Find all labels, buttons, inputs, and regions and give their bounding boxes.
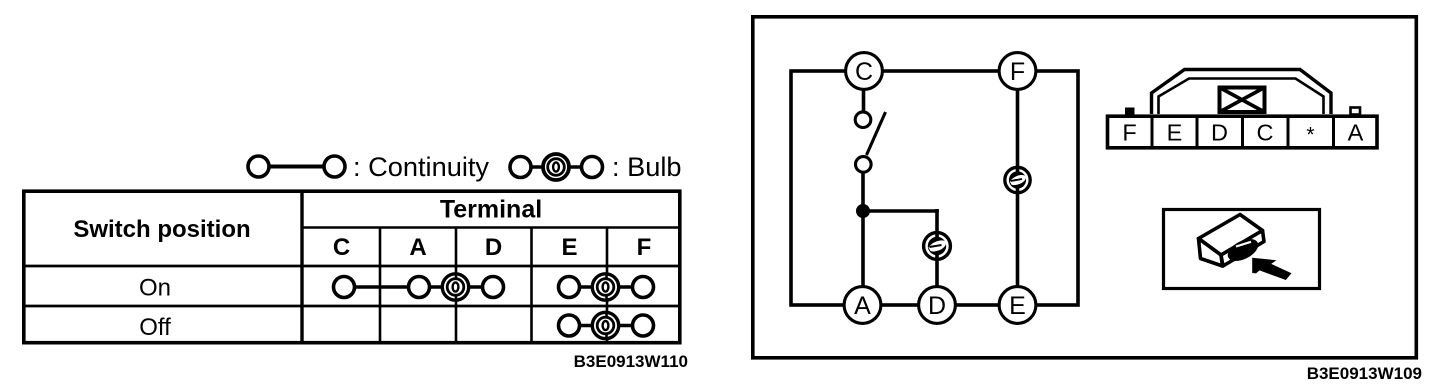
connector lock box with X bbox=[1220, 88, 1265, 113]
legend bulb symbol bbox=[510, 154, 603, 180]
inset arrow bbox=[1252, 258, 1291, 280]
On row continuity C-A with bulb to D bbox=[334, 274, 504, 300]
terminal D bbox=[919, 287, 956, 324]
connector left tab bbox=[1125, 108, 1135, 115]
wire C to switch bbox=[862, 71, 866, 113]
svg-text:: Continuity: : Continuity bbox=[353, 151, 489, 182]
svg-text:C: C bbox=[333, 234, 350, 261]
svg-text:F: F bbox=[1010, 58, 1025, 86]
terminal C bbox=[846, 53, 883, 90]
connector hood outer outline bbox=[1152, 70, 1332, 115]
connector socket dark face bbox=[1224, 234, 1262, 265]
inset box bbox=[1164, 210, 1320, 289]
svg-text:Off: Off bbox=[139, 314, 171, 341]
connector hood inner outline bbox=[1159, 79, 1324, 115]
svg-text:B3E0913W110: B3E0913W110 bbox=[574, 352, 688, 371]
wire junction to bulb branch bbox=[863, 209, 939, 305]
wire F to E through bulb bbox=[1016, 71, 1020, 305]
svg-text:On: On bbox=[139, 275, 171, 302]
svg-text:A: A bbox=[409, 234, 426, 261]
connector 3d body bbox=[1199, 215, 1265, 267]
wire switch to junction to A bbox=[861, 172, 865, 305]
terminal F bbox=[999, 53, 1036, 90]
terminal A bbox=[844, 287, 881, 324]
Off row bulb E-F bbox=[559, 312, 654, 338]
terminal E bbox=[999, 287, 1036, 324]
table grid bbox=[23, 191, 680, 343]
svg-text:D: D bbox=[1211, 120, 1228, 146]
outer frame of right figure bbox=[753, 17, 1417, 358]
svg-text:F: F bbox=[1122, 120, 1136, 146]
junction node bbox=[856, 204, 870, 218]
svg-text:D: D bbox=[485, 234, 502, 261]
svg-text:: Bulb: : Bulb bbox=[612, 151, 682, 182]
svg-text:Terminal: Terminal bbox=[440, 196, 542, 224]
svg-text:A: A bbox=[854, 292, 871, 320]
svg-text:*: * bbox=[1306, 124, 1314, 147]
svg-text:D: D bbox=[928, 292, 946, 320]
connector right tab bbox=[1351, 108, 1361, 115]
svg-text:E: E bbox=[1167, 120, 1183, 146]
bulb between junction and D bbox=[924, 233, 951, 260]
bulb between F and E bbox=[1005, 167, 1030, 192]
svg-text:C: C bbox=[1257, 120, 1274, 146]
svg-text:C: C bbox=[855, 58, 873, 86]
connector pin row bbox=[1108, 115, 1378, 149]
svg-text:E: E bbox=[1009, 292, 1026, 320]
svg-text:A: A bbox=[1348, 120, 1364, 146]
legend continuity symbol bbox=[248, 156, 345, 177]
svg-text:F: F bbox=[637, 234, 652, 261]
svg-text:E: E bbox=[561, 234, 577, 261]
svg-text:Switch position: Switch position bbox=[73, 216, 250, 243]
svg-text:B3E0913W109: B3E0913W109 bbox=[1307, 364, 1422, 383]
switch S1 bbox=[855, 112, 885, 172]
On row bulb E-F bbox=[559, 274, 654, 300]
circuit wire loop bbox=[791, 71, 1078, 305]
